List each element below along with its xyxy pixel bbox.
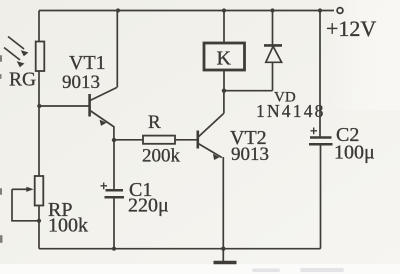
svg-text:9013: 9013 (62, 72, 100, 93)
node top rail / relay K (222, 8, 226, 12)
node top rail / VT1 collector (116, 8, 120, 12)
svg-text:100μ: 100μ (334, 142, 375, 164)
transistor VT1 9013 (90, 11, 118, 141)
light arrow 1 (8, 37, 29, 57)
svg-text:200k: 200k (142, 146, 181, 167)
svg-text:RG: RG (9, 70, 36, 91)
svg-text:1N4148: 1N4148 (256, 101, 326, 121)
svg-text:R: R (148, 112, 161, 133)
node C1 bottom rail (112, 247, 116, 251)
capacitor C1 220u (101, 140, 125, 249)
svg-text:9013: 9013 (231, 144, 269, 165)
relay K (204, 11, 245, 92)
ground (214, 249, 237, 263)
node top rail / C2 (318, 8, 322, 12)
svg-text:VT1: VT1 (69, 52, 106, 74)
wire left rail lower (38, 206, 40, 249)
svg-text:+12V: +12V (326, 16, 376, 41)
resistor R 200k (143, 136, 175, 144)
node RP wiper tie (37, 219, 41, 223)
transistor VT2 9013 (198, 91, 224, 249)
diode VD 1N4148 (264, 11, 282, 91)
wire K node to diode (224, 90, 273, 92)
node base VT1 on left rail (37, 104, 41, 108)
wire left rail middle (38, 71, 40, 176)
light arrow 2 (4, 48, 25, 68)
wire left rail upper (38, 11, 40, 43)
node ground junction (221, 247, 225, 251)
terminal +12V (337, 8, 343, 14)
wire top rail +12V (39, 10, 334, 12)
svg-text:K: K (217, 48, 232, 70)
wire R to VT2 base (175, 139, 197, 141)
wire VT1 base lead (39, 105, 89, 107)
node VT1 emitter / R / C1 (112, 138, 116, 142)
svg-text:100k: 100k (48, 215, 88, 237)
capacitor C2 100u (309, 11, 333, 249)
node top rail / diode VD (270, 8, 274, 12)
wire emitter to R (114, 139, 143, 141)
wire bottom rail (39, 248, 321, 250)
photoresistor RG (36, 42, 45, 72)
node K bottom / VD / VT2 collector (222, 89, 226, 93)
svg-text:220μ: 220μ (128, 195, 169, 217)
potentiometer RP 100k (12, 176, 43, 221)
